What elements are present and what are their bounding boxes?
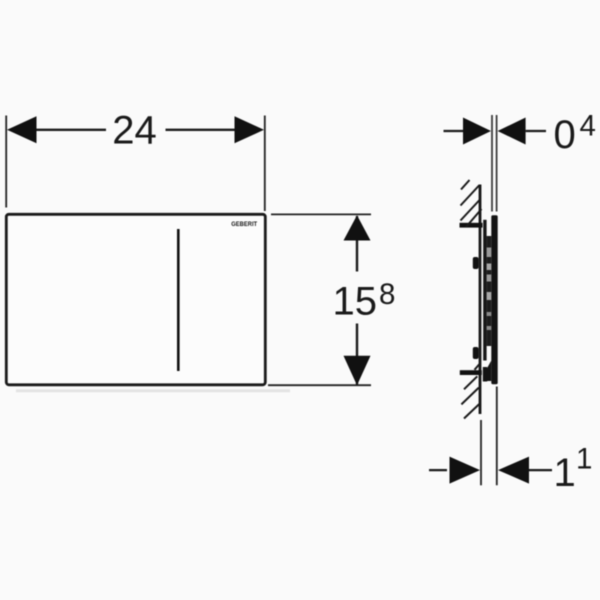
frame inner light break 1: [487, 248, 492, 258]
wall bottom hatch line 2: [461, 388, 478, 405]
plate panel side view: [491, 215, 497, 384]
wall bottom block top bar: [460, 370, 482, 375]
dim 24 line left segment: [37, 129, 107, 131]
side view projection line front (0.4 dim): [496, 115, 498, 212]
dim 15.8 bottom extension line: [268, 384, 371, 386]
svg-text:1: 1: [554, 451, 576, 495]
wall top hatch line 3: [461, 200, 481, 221]
dim 1.1 left leader: [429, 469, 447, 471]
button divider line: [177, 229, 180, 371]
mounting frame bar: [483, 220, 486, 361]
dim 1.1 right arrow: [498, 457, 529, 484]
frame foot: [483, 367, 487, 382]
wall top hatch line 1: [461, 180, 470, 190]
dim 0.4 right arrow: [498, 118, 526, 145]
dim 24 line right segment: [166, 129, 235, 131]
svg-text:4: 4: [580, 109, 596, 142]
wall surface line: [479, 185, 482, 415]
dim 24 right extension line: [264, 116, 266, 212]
plate front view outline: [6, 214, 265, 384]
dim 24 right arrow: [235, 116, 265, 143]
svg-text:8: 8: [379, 278, 395, 311]
dim 1.1 right projection line: [496, 387, 498, 486]
frame inner column: [487, 236, 492, 346]
shadow under plate: [16, 389, 290, 392]
frame inner light break 2: [487, 264, 492, 271]
frame inner light break 3: [487, 275, 492, 282]
wall top hatch line 2: [461, 185, 480, 206]
frame inner light break 4: [487, 292, 492, 300]
svg-text:GEBERIT: GEBERIT: [231, 221, 257, 228]
frame wedge: [487, 361, 492, 382]
dim 15.8 line lower segment: [356, 324, 358, 385]
clip bump upper: [473, 257, 479, 269]
svg-text:1: 1: [576, 443, 592, 476]
svg-text:24: 24: [112, 109, 157, 153]
dim 1.1 left projection line: [480, 420, 482, 485]
side view projection line back (0.4 dim): [491, 115, 493, 212]
wall bottom hatch line 3: [464, 404, 479, 419]
dim 15.8 line upper segment: [356, 216, 358, 272]
dim 15.8 top arrow: [344, 215, 371, 240]
dim 0.4 left leader: [444, 130, 464, 132]
wall bottom hatch stub: [475, 364, 480, 370]
dim 15.8 bottom arrow: [344, 356, 371, 386]
svg-text:0: 0: [554, 113, 576, 157]
dim 1.1 right leader: [529, 469, 552, 471]
dim 24 left arrow: [7, 116, 37, 143]
dim 24 left extension line: [5, 116, 7, 208]
wall top hatch line 4: [466, 209, 482, 227]
dim 1.1 left arrow: [450, 457, 481, 484]
wall top block bottom bar: [460, 223, 483, 228]
wall bottom hatch line 1: [464, 376, 477, 389]
frame inner light break 5: [487, 312, 492, 316]
dim 0.4 left arrow: [463, 118, 491, 145]
dim 15.8 top extension line: [271, 213, 371, 215]
frame inner light break 6: [487, 326, 492, 330]
dim 0.4 right leader: [526, 130, 546, 132]
clip bump lower: [473, 347, 479, 359]
svg-text:15: 15: [333, 279, 378, 323]
